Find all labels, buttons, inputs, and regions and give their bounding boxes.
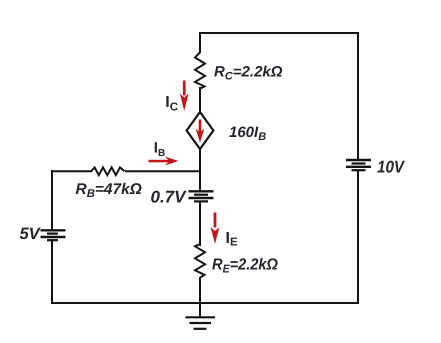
current arrow IC (red, down) — [180, 81, 189, 112]
svg-text:RB=47kΩ: RB=47kΩ — [76, 181, 142, 200]
wire top horizontal — [200, 32, 358, 34]
battery VBE 0.7V — [189, 191, 214, 201]
svg-text:5V: 5V — [20, 225, 42, 243]
wire emitter lower — [199, 201, 201, 246]
dependent current source U1 diamond — [187, 112, 214, 149]
ground symbol — [186, 317, 216, 329]
wire emitter to ground bus — [199, 277, 201, 317]
wire collector lower — [199, 87, 201, 113]
svg-text:RC=2.2kΩ: RC=2.2kΩ — [214, 64, 283, 83]
svg-text:RE=2.2kΩ: RE=2.2kΩ — [212, 256, 278, 275]
current arrow IB (red, right) — [149, 157, 179, 166]
wire collector top — [199, 32, 201, 53]
current arrow IE (red, down) — [211, 213, 220, 245]
wire right vertical lower — [357, 170, 359, 304]
wire right vertical upper — [357, 32, 359, 160]
svg-text:IB: IB — [154, 140, 165, 160]
svg-text:IC: IC — [165, 94, 178, 114]
svg-text:160IB: 160IB — [229, 124, 266, 143]
resistor RC zigzag — [195, 52, 205, 88]
resistor RB zigzag — [91, 167, 125, 175]
battery V1 5V — [41, 230, 66, 240]
wire base horizontal right segment — [125, 170, 201, 172]
battery V2 10V — [346, 160, 371, 170]
wire bottom horizontal — [51, 302, 359, 304]
wire left vertical lower — [51, 240, 53, 304]
svg-text:0.7V: 0.7V — [151, 187, 188, 206]
wire base horizontal left segment — [52, 170, 92, 172]
wire left vertical upper — [51, 170, 53, 230]
wire emitter upper — [199, 148, 201, 192]
svg-text:10V: 10V — [377, 158, 405, 177]
svg-text:IE: IE — [226, 230, 238, 249]
dependent source internal arrow (red, down) — [196, 120, 205, 143]
resistor RE zigzag — [195, 244, 205, 278]
